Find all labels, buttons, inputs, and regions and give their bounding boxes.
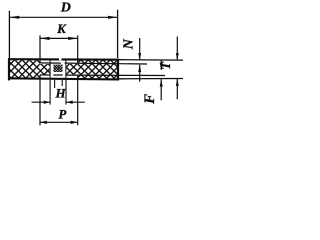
svg-text:P: P <box>58 107 67 122</box>
svg-text:K: K <box>56 21 67 36</box>
svg-text:H: H <box>54 86 66 101</box>
svg-text:F: F <box>142 94 158 105</box>
svg-text:D: D <box>60 0 71 15</box>
svg-text:N: N <box>122 38 137 50</box>
